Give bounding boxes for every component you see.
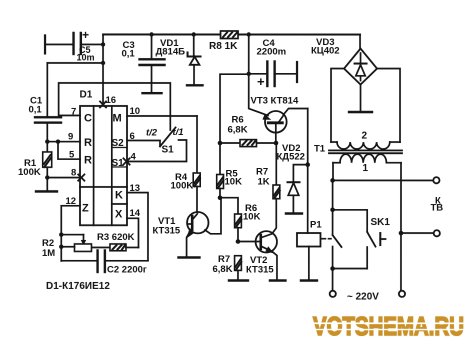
svg-text:Z: Z bbox=[82, 202, 89, 214]
wire top rail bbox=[103, 33, 360, 35]
svg-text:~ 220V: ~ 220V bbox=[347, 292, 379, 303]
node SK1 top branch bbox=[330, 208, 335, 213]
svg-text:0,1: 0,1 bbox=[122, 48, 136, 59]
wire to R6 10K bbox=[220, 198, 238, 214]
capacitor C3 bbox=[149, 32, 153, 36]
svg-text:S1: S1 bbox=[162, 144, 175, 155]
input terminal bar bbox=[44, 35, 46, 53]
resistor R6 10K bbox=[235, 214, 242, 228]
wire SK1 bottom bbox=[333, 268, 368, 270]
svg-text:8: 8 bbox=[71, 167, 76, 178]
wire VT1 right to R5 node bbox=[205, 199, 221, 234]
svg-text:10m: 10m bbox=[77, 52, 95, 62]
svg-text:6: 6 bbox=[130, 131, 135, 142]
node winding1 left bbox=[330, 178, 335, 183]
IC D1 box bbox=[80, 106, 127, 225]
ground under VD1 bbox=[187, 84, 203, 86]
svg-text:ТВ: ТВ bbox=[430, 203, 443, 214]
transistor VT2 bbox=[256, 231, 277, 252]
svg-text:2: 2 bbox=[362, 131, 368, 142]
svg-text:VT3 КТ814: VT3 КТ814 bbox=[251, 96, 299, 107]
wire C1 branch bbox=[47, 62, 103, 64]
svg-text:R8 1K: R8 1K bbox=[209, 41, 238, 52]
svg-text:1: 1 bbox=[362, 163, 368, 174]
svg-text:SK1: SK1 bbox=[370, 217, 390, 228]
svg-text:P1: P1 bbox=[310, 220, 322, 231]
svg-text:6,8K: 6,8K bbox=[228, 124, 248, 135]
svg-text:VOTSHEMA.RU: VOTSHEMA.RU bbox=[313, 313, 464, 341]
ground under bridge bbox=[360, 85, 362, 112]
node mains right bbox=[399, 231, 404, 236]
resistor R7 1K bbox=[275, 143, 277, 185]
wire to TV terminal 1 bbox=[333, 179, 434, 181]
switch S1 arm bbox=[160, 127, 176, 146]
wire pin8 bbox=[47, 177, 80, 179]
svg-text:R: R bbox=[84, 154, 92, 166]
resistor R7 6.8K bbox=[235, 256, 242, 271]
svg-text:S2: S2 bbox=[112, 138, 125, 149]
ground under VD2 bbox=[286, 212, 302, 214]
watermark votshema.ru bbox=[311, 313, 467, 341]
svg-text:1M: 1M bbox=[42, 248, 55, 259]
terminal K TV 2 bbox=[434, 230, 440, 236]
svg-text:КТ315: КТ315 bbox=[152, 225, 180, 236]
node C4 branch bbox=[247, 32, 251, 36]
wire pin12 bbox=[61, 206, 80, 261]
transistor VT3 bbox=[265, 111, 287, 133]
wire pin4 bbox=[127, 140, 187, 162]
zener diode VD1 bbox=[192, 32, 196, 36]
wire pin6 bbox=[127, 140, 160, 146]
svg-text:D1-К176ИЕ12: D1-К176ИЕ12 bbox=[46, 281, 110, 292]
dashed actuation link bbox=[321, 238, 331, 240]
resistor R4 bbox=[196, 116, 198, 173]
wire mains left vertical bbox=[332, 180, 334, 235]
switch SK1 bbox=[367, 232, 375, 247]
svg-text:4: 4 bbox=[131, 151, 137, 162]
transformer T1 core bbox=[329, 149, 402, 151]
capacitor C5 bbox=[72, 33, 74, 54]
transformer T1 winding 2 bbox=[331, 141, 337, 143]
wire loop pin7 bbox=[59, 83, 171, 130]
svg-text:+: + bbox=[257, 74, 265, 89]
terminal 220V left bbox=[330, 291, 336, 297]
ground under VT1 bbox=[178, 256, 199, 258]
node pin8 junction bbox=[45, 175, 49, 179]
ground under C3 bbox=[143, 92, 162, 94]
capacitor C2 bbox=[61, 260, 97, 262]
resistor R8 bbox=[221, 31, 239, 39]
svg-text:R: R bbox=[84, 137, 92, 149]
node C1 branch bbox=[101, 61, 105, 65]
wire pin9 bbox=[47, 141, 80, 143]
svg-text:12: 12 bbox=[65, 196, 76, 207]
svg-text:t/1: t/1 bbox=[173, 127, 184, 138]
wire pin10 M line bbox=[127, 115, 197, 117]
terminal K TV 1 bbox=[433, 177, 439, 183]
wire to TV terminal 2 bbox=[401, 232, 433, 234]
wire pin5 bbox=[58, 142, 80, 160]
wire pin13 bbox=[127, 193, 148, 261]
svg-text:5: 5 bbox=[69, 149, 75, 160]
wire bridge left to winding 2 bbox=[331, 69, 344, 143]
node VD2 branch bbox=[305, 162, 310, 167]
node pin8 cross bbox=[78, 174, 84, 180]
svg-text:6,8K: 6,8K bbox=[212, 264, 232, 275]
transformer T1 winding 1 bbox=[333, 162, 340, 164]
resistor R3 bbox=[92, 246, 110, 248]
variable resistor R2 bbox=[59, 232, 63, 236]
wire pin16 drop bbox=[102, 34, 104, 106]
svg-text:T1: T1 bbox=[314, 144, 326, 155]
svg-text:КД522: КД522 bbox=[277, 152, 305, 163]
svg-text:10: 10 bbox=[130, 106, 141, 117]
svg-text:Д814Б: Д814Б bbox=[156, 46, 186, 57]
svg-text:t/2: t/2 bbox=[146, 127, 158, 138]
diode VD2 bbox=[293, 165, 307, 182]
node VT2 base bbox=[236, 239, 241, 244]
terminal 220V right bbox=[399, 291, 405, 297]
wire SK1 top bbox=[333, 210, 368, 232]
bridge rectifier VD3 bbox=[359, 35, 361, 49]
node C5 junction bbox=[101, 42, 105, 46]
wire bbox=[45, 43, 73, 45]
relay contact P1 bbox=[333, 235, 342, 247]
ground under R1 bbox=[36, 190, 57, 192]
wire pin14 bbox=[127, 218, 139, 247]
resistor R5 bbox=[217, 174, 224, 188]
node pin9 junction bbox=[45, 139, 49, 143]
svg-text:7: 7 bbox=[71, 106, 76, 117]
svg-text:13: 13 bbox=[129, 183, 140, 194]
svg-text:D1: D1 bbox=[80, 89, 93, 100]
node pin16 bbox=[100, 101, 106, 107]
resistor R6 6.8K bbox=[218, 141, 223, 146]
svg-text:X: X bbox=[115, 208, 123, 220]
svg-text:1K: 1K bbox=[257, 177, 269, 188]
svg-text:10K: 10K bbox=[224, 176, 242, 187]
svg-text:+: + bbox=[82, 28, 89, 42]
svg-text:100K: 100K bbox=[170, 180, 193, 191]
ground under VT2 bbox=[270, 279, 286, 281]
svg-text:100K: 100K bbox=[18, 167, 41, 178]
svg-text:10K: 10K bbox=[243, 212, 261, 223]
svg-text:14: 14 bbox=[129, 208, 140, 219]
node R5 bottom bbox=[218, 195, 223, 200]
capacitor C4 bbox=[249, 73, 267, 75]
ground under R7 6.8K bbox=[229, 279, 248, 281]
svg-text:16: 16 bbox=[106, 95, 117, 106]
svg-text:9: 9 bbox=[68, 131, 73, 142]
wire to R5 column bbox=[220, 74, 249, 174]
svg-text:S1: S1 bbox=[112, 158, 125, 169]
svg-text:2200m: 2200m bbox=[257, 47, 287, 58]
node pin4 cross bbox=[123, 158, 129, 164]
transistor VT1 bbox=[187, 212, 208, 233]
svg-text:0,1: 0,1 bbox=[29, 104, 43, 115]
ground under P1 bbox=[301, 279, 317, 281]
node VT3 base / R6 bbox=[274, 141, 279, 146]
capacitor C1 bbox=[35, 116, 61, 118]
svg-text:C2 2200г: C2 2200г bbox=[107, 264, 147, 275]
resistor R1 bbox=[43, 152, 52, 167]
svg-text:C: C bbox=[84, 112, 92, 124]
node pin5 branch bbox=[56, 139, 60, 143]
svg-text:M: M bbox=[113, 112, 122, 124]
svg-text:КТ315: КТ315 bbox=[246, 265, 274, 276]
node SK1 bottom branch bbox=[330, 266, 335, 271]
svg-text:K: K bbox=[115, 189, 123, 201]
svg-text:КЦ402: КЦ402 bbox=[311, 46, 340, 57]
svg-text:R3 620K: R3 620K bbox=[97, 232, 135, 243]
wire bridge right to winding 2 bbox=[377, 69, 400, 143]
relay coil P1 bbox=[297, 233, 321, 247]
